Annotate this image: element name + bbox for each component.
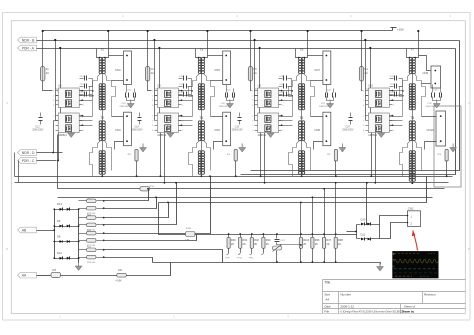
svg-text:3: 3 [152, 125, 153, 127]
svg-text:4: 4 [252, 130, 253, 132]
wire IC U9 to T6 [279, 116, 293, 118]
resistor R36 1K [312, 235, 314, 238]
wire AB to diode array [37, 230, 55, 232]
svg-text:5: 5 [393, 105, 394, 107]
svg-text:1K: 1K [315, 242, 318, 246]
capacitor stack cell 1 [80, 78, 84, 80]
svg-text:A: A [6, 101, 8, 105]
svg-text:2A: 2A [151, 71, 154, 75]
svg-text:5: 5 [282, 105, 283, 107]
test point TP10 [240, 249, 242, 253]
wire RC bottom bus [153, 263, 381, 265]
oscilloscope image [392, 251, 438, 278]
svg-text:CN7: CN7 [314, 68, 320, 72]
svg-text:A: A [468, 101, 470, 105]
svg-text:2: 2 [53, 120, 54, 122]
svg-text:TP11: TP11 [248, 257, 254, 259]
capacitor stack cell 3 [279, 78, 283, 80]
svg-text:T5: T5 [300, 48, 304, 52]
connector CN7 [323, 51, 331, 85]
svg-text:2: 2 [363, 95, 364, 97]
ground RC row [379, 263, 381, 267]
fuse F3 [250, 31, 252, 67]
svg-text:NDR - B: NDR - B [22, 38, 35, 42]
bridge frame [356, 225, 358, 239]
svg-text:CN4: CN4 [115, 128, 121, 132]
port PDR-C [18, 158, 37, 164]
resistors R26/R27 [87, 231, 97, 235]
ground below C22 [329, 100, 331, 104]
svg-text:R37: R37 [326, 238, 331, 242]
svg-text:2K: 2K [303, 242, 306, 246]
svg-text:TP10: TP10 [237, 257, 243, 259]
svg-text:256K105V: 256K105V [219, 106, 230, 108]
svg-text:AD8614: AD8614 [157, 134, 166, 137]
svg-text:D13: D13 [57, 202, 62, 206]
wire PDR-C rail [37, 160, 57, 162]
port PDR-A [18, 45, 37, 51]
svg-text:2: 2 [252, 95, 253, 97]
svg-text:T2: T2 [100, 116, 104, 120]
svg-text:JP10: JP10 [149, 186, 155, 188]
ground below C25 [436, 100, 438, 104]
capacitor stack cell 4 [390, 78, 394, 80]
connector CN8 [323, 112, 331, 146]
svg-text:3: 3 [363, 125, 364, 127]
svg-text:File: File [324, 310, 329, 314]
svg-text:3: 3 [53, 125, 54, 127]
op-amp U9 [258, 113, 279, 133]
svg-text:5: 5 [83, 130, 84, 132]
svg-text:CN2: CN2 [408, 206, 414, 210]
svg-text:U4: U4 [58, 84, 62, 88]
svg-text:CN5: CN5 [214, 68, 220, 72]
wire fuse F3 to IC [251, 81, 252, 91]
svg-text:2: 2 [152, 120, 153, 122]
resistor below CN8 [313, 149, 315, 150]
wire bridge to bus [366, 183, 368, 225]
svg-text:U10: U10 [368, 84, 373, 88]
port NDR-B [18, 37, 37, 43]
trimmer RP1 [276, 243, 278, 245]
ground cell 1 right [142, 144, 144, 148]
test point TP11 [251, 249, 253, 253]
resistors R28/R29 [87, 248, 97, 252]
resistor below CN6 [213, 149, 215, 150]
svg-text:C117: C117 [280, 240, 286, 242]
svg-text:4: 4 [53, 130, 54, 132]
wire fuse F2 to IC [148, 81, 152, 91]
svg-text:PDR - A: PDR - A [22, 46, 35, 50]
resistor R38 1K [335, 235, 337, 238]
ground cell 2 left [169, 129, 171, 133]
svg-text:4.99K: 4.99K [116, 280, 123, 283]
svg-text:AD8614: AD8614 [368, 134, 377, 137]
transformer top wires [196, 49, 200, 58]
connector CN10 [436, 111, 446, 146]
svg-text:Date: Date [324, 305, 331, 309]
svg-text:Title: Title [324, 280, 330, 284]
fuse F4 [361, 31, 363, 67]
svg-text:2K: 2K [243, 242, 246, 246]
wire RC top bus [159, 203, 186, 235]
wire IC U5 to T2 [80, 116, 93, 118]
svg-text:T3: T3 [199, 48, 203, 52]
svg-text:R36: R36 [315, 238, 320, 242]
svg-text:4: 4 [363, 105, 364, 107]
svg-text:2: 2 [252, 120, 253, 122]
wire tap R37 [324, 189, 326, 235]
wire tap R38 [335, 183, 337, 235]
fuse F1 [42, 31, 44, 67]
svg-text:4: 4 [363, 130, 364, 132]
svg-text:3: 3 [252, 100, 253, 102]
svg-text:R30: R30 [231, 238, 236, 242]
svg-text:AD8614: AD8614 [258, 134, 267, 137]
svg-text:D10: D10 [361, 218, 366, 222]
wire RC top bus 2 [195, 234, 357, 236]
svg-text:CN6: CN6 [214, 128, 220, 132]
svg-text:5: 5 [182, 130, 183, 132]
wire AA riser [127, 263, 171, 276]
connector CN6 [223, 112, 231, 146]
transformer top wires [296, 49, 300, 58]
svg-text:256K105V: 256K105V [32, 129, 44, 132]
svg-text:R110: R110 [303, 238, 310, 242]
op-amp U5 [58, 113, 79, 133]
wire fanout 7 [104, 250, 223, 263]
svg-text:1K: 1K [326, 242, 329, 246]
svg-text:B: B [6, 247, 8, 251]
connector CN9 [431, 66, 441, 88]
transformer bottom wire [412, 181, 414, 184]
wire left-edge risers [14, 153, 16, 177]
svg-text:D8: D8 [57, 234, 61, 238]
ground cell 3 right [341, 144, 343, 148]
wire tap R110 [300, 203, 302, 235]
wire fuse F1 to IC [43, 81, 53, 91]
resistor R41 4.99K [61, 275, 117, 277]
wire feeds cell 3 [254, 41, 256, 121]
wire IC U8 to T5 [279, 90, 293, 92]
transformer top wires [97, 49, 101, 58]
port NDR-D [18, 150, 37, 156]
svg-text:R32: R32 [254, 238, 259, 242]
svg-text:D12: D12 [57, 251, 62, 255]
wire cap link [277, 244, 301, 246]
op-amp U11 [368, 113, 389, 133]
wire IC U4 to T1 [80, 90, 93, 92]
bus 1 [15, 176, 453, 178]
capacitor C117 [276, 235, 278, 239]
svg-text:R121: R121 [186, 228, 192, 230]
svg-text:3: 3 [53, 100, 54, 102]
ground cell 3 left [270, 129, 272, 133]
test point TP9 [228, 249, 230, 253]
svg-text:B: B [468, 247, 470, 251]
wire IC U11 to T8 [390, 116, 403, 118]
svg-text:2K: 2K [254, 242, 257, 246]
svg-text:2K: 2K [231, 242, 234, 246]
wire bridge to CN2 pin1 [380, 216, 408, 225]
svg-text:R38: R38 [338, 238, 343, 242]
resistors R22/R23 [87, 199, 97, 203]
svg-text:256K105V: 256K105V [342, 129, 354, 132]
test point TP12 [263, 249, 265, 253]
svg-text:256K105V: 256K105V [319, 106, 330, 108]
svg-text:256K105V: 256K105V [232, 129, 244, 132]
svg-text:R33: R33 [266, 238, 271, 242]
capacitor C19 256K105V [239, 113, 241, 117]
resistor R30 2K [228, 235, 230, 238]
wire feeds cell 2 [154, 41, 156, 121]
jumper JP5 [37, 275, 51, 277]
svg-text:AA: AA [22, 274, 27, 278]
wire fanout 2 [104, 198, 157, 209]
svg-text:1: 1 [252, 91, 253, 93]
wire IC U7 to T4 [179, 116, 193, 118]
svg-text:1: 1 [152, 91, 153, 93]
svg-text:2A: 2A [254, 71, 257, 75]
svg-text:Size: Size [324, 292, 330, 296]
svg-text:5: 5 [282, 130, 283, 132]
svg-text:JP5: JP5 [52, 269, 57, 272]
ground below C16 [130, 100, 132, 104]
resistor below CN10 [424, 149, 426, 150]
svg-text:CN3: CN3 [115, 68, 121, 72]
svg-text:Drawn by: Drawn by [402, 310, 415, 314]
svg-text:2K: 2K [266, 242, 269, 246]
svg-text:4: 4 [152, 130, 153, 132]
wire fanout 1 [104, 189, 149, 201]
svg-text:+15V: +15V [397, 28, 404, 32]
ground cell 4 right [452, 144, 454, 148]
svg-text:4: 4 [53, 105, 54, 107]
svg-text:Sheet of: Sheet of [404, 305, 415, 309]
op-amp U7 [157, 113, 178, 133]
ground diode array [78, 262, 80, 266]
svg-text:3: 3 [152, 100, 153, 102]
bus 3 [58, 135, 445, 189]
capacitor stack cell 2 [179, 78, 183, 80]
svg-text:PDR - C: PDR - C [22, 159, 35, 163]
transformer bottom wire [102, 175, 104, 177]
capacitor C12 256K105V [40, 113, 42, 117]
svg-text:2009-1-12: 2009-1-12 [340, 305, 354, 309]
svg-text:CN9: CN9 [423, 71, 429, 75]
wire right-edge drops [251, 41, 460, 171]
wire IC U10 to T7 [390, 90, 403, 92]
svg-text:R31: R31 [243, 238, 248, 242]
svg-text:1: 1 [53, 116, 54, 118]
diode array left bus [54, 210, 56, 259]
svg-text:4: 4 [252, 105, 253, 107]
svg-text:256K105V: 256K105V [131, 129, 143, 132]
resistor below CN4 [114, 149, 116, 150]
svg-text:D11: D11 [361, 233, 366, 237]
capacitor C18 256K105V [139, 113, 141, 117]
svg-text:1: 1 [53, 91, 54, 93]
transformer top wires [407, 49, 411, 58]
wire PDR-A rail [37, 48, 456, 50]
port AA [18, 272, 37, 278]
resistor R32 2K [251, 235, 253, 238]
svg-text:2: 2 [363, 120, 364, 122]
svg-text:2: 2 [53, 95, 54, 97]
svg-text:5: 5 [393, 130, 394, 132]
wire feeds cell 4 [365, 41, 367, 121]
connector CN4 [124, 112, 132, 146]
svg-text:2A: 2A [365, 71, 368, 75]
wire NDR-D rail [37, 152, 63, 154]
wire fanout 3 [104, 203, 169, 218]
svg-text:5: 5 [182, 105, 183, 107]
capacitor C24 256K105V [350, 113, 352, 117]
resistor R110 2K [300, 235, 302, 238]
transformer bottom wire [301, 175, 303, 177]
svg-text:5: 5 [83, 105, 84, 107]
svg-text:256K105V: 256K105V [426, 106, 437, 108]
wire NDR-B rail [37, 40, 460, 42]
svg-text:1: 1 [363, 116, 364, 118]
svg-text:CN10: CN10 [427, 128, 435, 132]
bus 4 [58, 197, 433, 199]
svg-text:256K105V: 256K105V [120, 106, 131, 108]
wire feeds cell 1 [55, 41, 57, 121]
ground cell 4 left [380, 129, 382, 133]
svg-text:R41: R41 [118, 269, 123, 272]
diode array mid bus [78, 210, 80, 263]
wire fuse F4 to IC [362, 81, 363, 91]
svg-text:3: 3 [252, 125, 253, 127]
wire fanout 6 [104, 235, 197, 241]
svg-text:AB: AB [22, 228, 27, 232]
resistor R12 2.9K [186, 232, 196, 237]
title block [323, 279, 466, 281]
ground cell 2 right [241, 144, 243, 148]
svg-text:2.9K: 2.9K [185, 240, 190, 242]
resistor R37 1K [324, 235, 326, 238]
wire fanout 5 [104, 177, 211, 234]
port AB [18, 227, 37, 233]
svg-text:A4: A4 [325, 297, 329, 301]
wire IC U6 to T3 [179, 90, 193, 92]
wire fanout 8 [104, 258, 153, 263]
wire bridge to CN2 pin2 [380, 223, 408, 239]
svg-text:T7: T7 [410, 48, 414, 52]
jumper JP10 [140, 187, 150, 191]
resistor R33 2K [263, 235, 265, 238]
svg-text:D9: D9 [57, 219, 61, 223]
transformer bottom wire [201, 175, 203, 177]
fuse F2 [147, 31, 149, 67]
svg-text:1: 1 [363, 91, 364, 93]
svg-text:1: 1 [252, 116, 253, 118]
bus 2 [15, 182, 449, 184]
svg-text:1K: 1K [338, 242, 341, 246]
connector CN5 [223, 51, 231, 85]
ground below C20 [229, 100, 231, 104]
svg-text:U6: U6 [157, 84, 161, 88]
svg-text:Revision: Revision [424, 292, 436, 296]
svg-text:U8: U8 [258, 84, 262, 88]
svg-text:K:\Design-Files\AT-SL5336-L6\I: K:\Design-Files\AT-SL5336-L6\Inverter-Dr… [340, 310, 404, 314]
svg-text:R29 500: R29 500 [87, 262, 96, 264]
svg-text:AD8614: AD8614 [58, 134, 67, 137]
bus 5 [159, 177, 427, 203]
svg-text:3: 3 [363, 100, 364, 102]
svg-text:T1: T1 [100, 48, 104, 52]
resistors R24/R25 [87, 216, 97, 220]
svg-text:2A: 2A [46, 71, 49, 75]
connector shroud box [434, 106, 461, 187]
resistor R31 2K [240, 235, 242, 238]
svg-text:4: 4 [152, 105, 153, 107]
svg-text:2: 2 [152, 95, 153, 97]
wire fanout 4 [104, 183, 177, 225]
svg-text:Number: Number [340, 292, 351, 296]
red annotation arrow [413, 231, 418, 251]
wire tap R36 [312, 198, 314, 235]
svg-text:1: 1 [152, 116, 153, 118]
svg-text:CN8: CN8 [314, 128, 320, 132]
connector CN3 [124, 51, 132, 85]
svg-text:NDR - D: NDR - D [22, 151, 35, 155]
+15V rail [43, 30, 393, 32]
ground cell 1 left [70, 129, 72, 133]
